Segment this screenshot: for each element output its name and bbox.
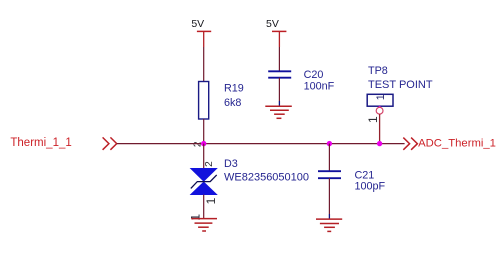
svg-text:C20: C20 [304,69,324,81]
pin number 1 (D3) [204,197,218,204]
svg-text:2: 2 [204,161,215,167]
port chevrons left [103,137,117,149]
svg-text:C21: C21 [355,169,375,181]
svg-text:R19: R19 [224,82,244,94]
wire C21 to ground [328,178,330,219]
svg-text:1: 1 [366,116,380,123]
svg-text:Thermi_1_1: Thermi_1_1 [10,137,71,149]
power port 5V (left) [191,18,211,47]
junction node (R19/D3) [201,141,206,146]
svg-text:1: 1 [189,214,203,221]
capacitor C20 [268,69,334,92]
svg-text:100nF: 100nF [304,80,335,92]
test point TP8 [367,65,433,106]
svg-text:6k8: 6k8 [224,97,241,109]
svg-text:5V: 5V [191,18,204,30]
wire 5V to C20 [278,47,280,71]
pin number 2 (D3) [204,161,215,167]
wire C20 to ground [278,78,280,106]
wire D3 to ground [203,195,205,219]
power port 5V (right) [266,18,286,47]
wire node to D3 [203,144,205,169]
wire R19 to node [203,119,205,144]
wire main horizontal net [117,143,405,145]
pin name 1 (inside TP8) [375,94,387,100]
ground (below D3) [191,219,217,231]
ground (below C20) [265,106,292,118]
svg-text:TP8: TP8 [368,65,388,77]
TVS diode D3 [191,158,309,195]
svg-text:TEST POINT: TEST POINT [368,79,433,91]
resistor R19 [199,82,244,120]
wire node to C21 [328,144,330,172]
pin number 2 (R19) [193,141,204,147]
svg-text:5V: 5V [266,18,279,30]
svg-text:D3: D3 [224,158,238,170]
svg-text:1: 1 [204,197,218,204]
ground (below C21) [316,219,342,231]
junction node (TP8) [377,141,382,146]
svg-text:ADC_Thermi_1: ADC_Thermi_1 [418,138,496,150]
capacitor C21 [318,169,386,192]
wire 5V to R19 [203,47,205,82]
svg-text:100pF: 100pF [355,181,386,193]
pin number 1 (TP8) [366,116,380,123]
svg-text:1: 1 [375,94,387,100]
wire TP8 to node [379,114,381,144]
TP8 terminal circle [376,107,383,114]
pin number 1 (ground mark) [189,214,203,221]
svg-text:WE82356050100: WE82356050100 [224,171,309,183]
junction node (C21) [327,141,332,146]
port chevrons right [403,138,417,150]
TP8 hotspot dot [378,106,380,108]
